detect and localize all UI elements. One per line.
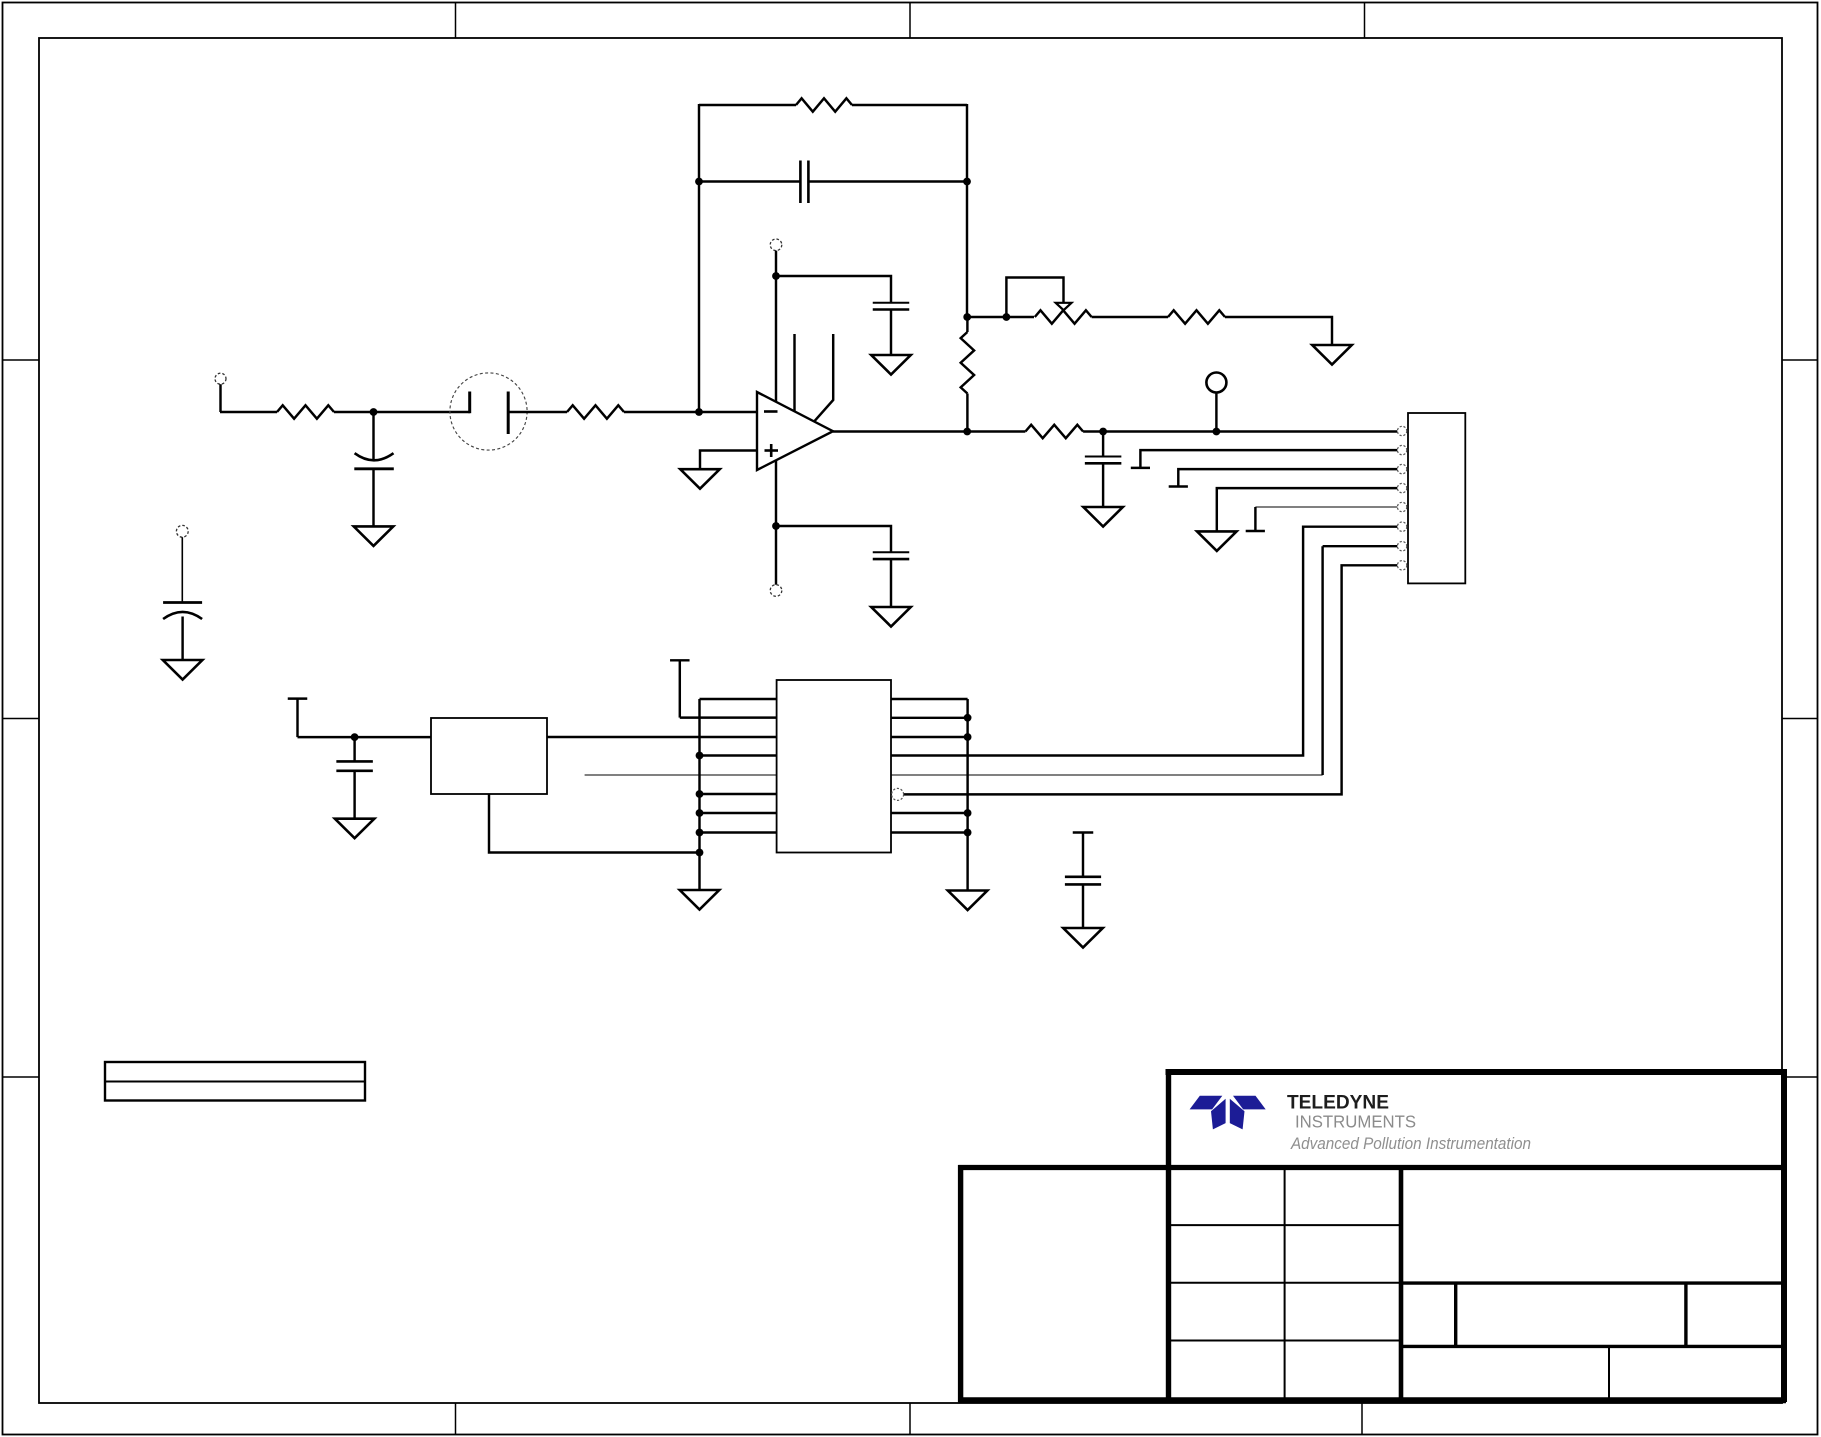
Teledyne logo text tagline (1290, 1135, 1531, 1153)
wire V+ to C3 (776, 276, 891, 303)
wire U2 pin row6 left (700, 793, 777, 795)
zone tick bottom 1 (455, 1403, 457, 1435)
connector J1 pin 8 circle (1397, 561, 1406, 570)
wire J1 pin8 to U2 (904, 565, 1398, 794)
wire feedback right vertical upper (966, 104, 968, 317)
stub terminator above U2 (670, 660, 690, 717)
connector J1 pin 4 circle (1397, 483, 1406, 492)
ground at non-inverting input (680, 469, 720, 489)
Teledyne logo text INSTRUMENTS (1295, 1112, 1416, 1132)
wire U2 pin row1 right (891, 698, 968, 700)
stub terminator above U3 (288, 699, 308, 738)
capacitor C6 (336, 761, 373, 770)
IC U2 inverted output bubble (892, 788, 904, 800)
Teledyne logo text TELEDYNE (1287, 1092, 1389, 1114)
connector J1 body (1408, 413, 1465, 583)
wire J1 pin6 to U2 (891, 527, 1397, 756)
detector DET1 left electrode (468, 392, 471, 414)
wire C3 to ground (890, 310, 892, 356)
stub terminator pin2 (1131, 467, 1150, 469)
node input junction dot (370, 408, 378, 416)
op-amp U1 balance pin 2 (814, 334, 833, 421)
wire U2 pin row2 right (891, 717, 968, 719)
stub terminator above C7 (1073, 833, 1094, 877)
op-amp U1 minus sign (764, 410, 778, 413)
wire U2 right bus (966, 699, 968, 891)
svg-text:INSTRUMENTS: INSTRUMENTS (1295, 1112, 1416, 1132)
ground below right bus (948, 891, 988, 911)
stub terminator pin3 (1169, 485, 1188, 487)
zone tick right 3 (1782, 1076, 1818, 1078)
capacitor C7 (1065, 877, 1101, 885)
zone tick top 2 (909, 3, 911, 39)
wire U2 pin row8 left (700, 831, 777, 833)
trimmer VR1 body (1035, 310, 1092, 323)
zone tick top 3 (1364, 3, 1366, 39)
node inverting input dot (695, 408, 703, 416)
op-amp U1 V+ pin (775, 276, 777, 402)
node row4 left dot (696, 752, 704, 760)
wire trimmer to R3 (1092, 316, 1168, 318)
node V- rail dot (772, 522, 780, 530)
node C6 junction dot (351, 733, 359, 741)
wire U2 pin row5 right thin (891, 774, 1323, 776)
wire J1 pin7 (1323, 545, 1398, 547)
resistor R9 vertical (961, 317, 974, 432)
node row7 right dot (964, 809, 972, 817)
resistor R3 (1168, 310, 1225, 323)
wire detector to R8 (509, 411, 567, 413)
wire J1 pin4 (1217, 488, 1398, 531)
ground below C3 (871, 355, 911, 375)
op-amp U1 triangle (757, 392, 833, 470)
revision table (105, 1062, 365, 1101)
wire cap branch left (699, 180, 800, 182)
capacitor C3 (873, 303, 910, 310)
wire V- stem (775, 526, 777, 585)
capacitor C5 stem (1102, 432, 1104, 457)
op-amp U1 balance pin 1 (793, 334, 795, 412)
ground below C8 (163, 660, 203, 680)
detector DET1 right electrode (507, 392, 510, 435)
capacitor C1 (354, 453, 394, 526)
port reference terminal (176, 525, 188, 602)
node row6 left dot (696, 790, 704, 798)
wire feedback left vertical (698, 104, 700, 412)
connector J1 pin 5 circle (1397, 502, 1406, 511)
wire U2 pin row4 left (700, 754, 777, 756)
svg-text:TELEDYNE: TELEDYNE (1287, 1092, 1389, 1114)
capacitor C4 (873, 552, 910, 559)
IC U2 body (777, 680, 891, 853)
wire U2 pin row7 right (891, 812, 968, 814)
wire C7 to ground (1082, 884, 1084, 928)
wire cap branch right (808, 180, 967, 182)
title block grid (958, 1069, 1786, 1402)
node row3 right dot (964, 733, 972, 741)
ground below left bus (680, 890, 720, 910)
wire U2 pin row1 left (700, 698, 777, 700)
wire J1 pin2 (1140, 450, 1397, 468)
port output terminal (1206, 373, 1226, 432)
wire C6 to ground (353, 771, 355, 819)
wire R8 to op-amp inverting input (624, 411, 757, 413)
wire R1 to detector (334, 411, 470, 413)
node feedback cap right dot (963, 178, 971, 186)
detector DET1 envelope (450, 373, 527, 450)
connector J1 pin 3 circle (1397, 464, 1406, 473)
zone tick bottom 3 (1361, 1403, 1363, 1435)
node output dot (963, 428, 971, 436)
node feedback divider dot (963, 313, 971, 321)
connector J1 pin 7 circle (1397, 542, 1406, 551)
wire U2 left bus (698, 699, 700, 890)
wire input to R1 (220, 411, 277, 413)
wire U2 pin row7 left (700, 812, 777, 814)
node trimmer left dot (1003, 313, 1011, 321)
node row8 right dot (964, 829, 972, 837)
zone tick right 1 (1782, 359, 1818, 361)
node U3 bottom to bus dot (696, 849, 704, 857)
wire stub to U3 (298, 736, 432, 738)
ground below C6 (335, 819, 375, 839)
wire V+ stem (775, 251, 777, 276)
wire U2 pin row3 right (891, 736, 968, 738)
capacitor C1 stem (372, 412, 374, 461)
wire U2 pin row8 right (891, 831, 968, 833)
port J2 input terminal (215, 373, 226, 412)
connector J1 pin 2 circle (1397, 445, 1406, 454)
op-amp U1 plus sign (765, 444, 779, 457)
port V- terminal (770, 585, 782, 597)
wire pin5 stub drop (1254, 507, 1256, 531)
stub terminator pin5 (1246, 530, 1265, 532)
node output filter dot (1099, 428, 1107, 436)
svg-text:Advanced Pollution Instrumenta: Advanced Pollution Instrumentation (1290, 1135, 1531, 1153)
zone tick left 1 (3, 359, 40, 361)
capacitor C6 stem (353, 737, 355, 761)
ground below C4 (871, 607, 911, 627)
wire op-amp output (833, 430, 1025, 432)
wire pin7 riser (1321, 546, 1323, 775)
node row7 left dot (696, 809, 704, 817)
capacitor C5 (1085, 457, 1122, 464)
ground at pin4 (1197, 531, 1237, 551)
wire divider to trimmer (967, 316, 1034, 318)
wire U2 pin row2 left (680, 716, 777, 718)
node feedback cap left dot (695, 178, 703, 186)
ground below C1 (354, 526, 394, 546)
node V+ rail dot (772, 272, 780, 280)
trimmer VR1 wiper (1006, 278, 1071, 318)
wire U2 pin row5 left thin (585, 774, 777, 776)
node row2 right dot (964, 714, 972, 722)
zone tick left 3 (3, 1076, 40, 1078)
zone tick top 1 (455, 3, 457, 39)
resistor R2 feedback (796, 98, 852, 111)
wire C4 to ground (890, 559, 892, 607)
capacitor C2 feedback (800, 161, 808, 204)
wire R4 to connector (1083, 430, 1397, 432)
wire R3 to ground corner (1225, 317, 1332, 345)
op-amp U1 V- pin (775, 460, 777, 526)
oscillator U3 body (431, 718, 547, 794)
wire C5 to ground (1102, 463, 1104, 507)
resistor R4 output (1025, 425, 1083, 438)
ground below C5 (1083, 507, 1123, 527)
wire U3 output row3 (547, 736, 777, 738)
ground below C7 (1063, 928, 1103, 948)
resistor R8 (567, 405, 624, 418)
port V+ terminal (770, 239, 782, 251)
resistor R1 (277, 405, 334, 418)
ground after R3 (1312, 345, 1352, 365)
Teledyne logo mark (1190, 1096, 1266, 1130)
connector J1 pin 6 circle (1397, 522, 1406, 531)
wire non-inverting input (700, 451, 757, 470)
wire top rail right (852, 104, 967, 106)
zone tick bottom 2 (909, 1403, 911, 1435)
node row8 left dot (696, 829, 704, 837)
wire U3 bottom pin (489, 794, 700, 853)
wire J1 pin3 (1178, 469, 1397, 486)
zone tick right 2 (1782, 718, 1818, 720)
connector J1 pin 1 circle (1397, 426, 1406, 435)
wire V- to C4 (776, 526, 891, 552)
wire top rail left (699, 104, 796, 106)
zone tick left 2 (3, 718, 40, 720)
wire J1 pin5 thin (1255, 506, 1397, 508)
capacitor C8 (163, 603, 202, 661)
node output port dot (1213, 428, 1221, 436)
